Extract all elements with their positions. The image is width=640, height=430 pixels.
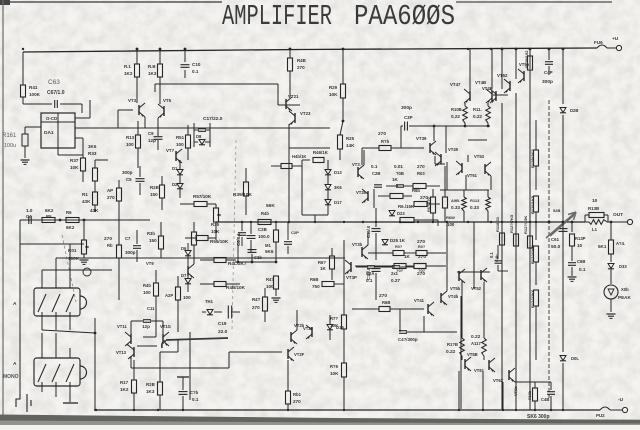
wire vt59 col (468, 139, 487, 141)
svg-text:R25: R25 (346, 136, 355, 141)
svg-text:R6: R6 (66, 210, 72, 215)
svg-text:PU2: PU2 (596, 413, 605, 418)
svg-text:VT2F: VT2F (294, 352, 305, 357)
svg-text:R6b: R6b (412, 188, 420, 193)
terminal +U (607, 47, 616, 49)
svg-text:C6B: C6B (577, 259, 585, 264)
capacitor 2x1 0.2 (392, 265, 400, 267)
svg-text:VT41: VT41 (414, 298, 425, 303)
capacitor C2A 0.1 (367, 265, 375, 267)
diode D25 (382, 240, 388, 245)
wires cascade to rail (461, 356, 463, 360)
wire -U bottom rail (94, 409, 600, 411)
fuse PU2 (600, 407, 610, 410)
svg-text:1K: 1K (392, 177, 399, 182)
border top-right segment (456, 1, 612, 3)
bus line x530 (529, 100, 531, 410)
svg-text:AMPLIFIER: AMPLIFIER (222, 0, 332, 33)
zigzag resistors 0.22 bottom (460, 338, 465, 356)
svg-text:C6/0.1: C6/0.1 (236, 233, 241, 246)
svg-text:R?9: R?9 (330, 364, 339, 369)
resistor R2B 1K3 (158, 382, 163, 395)
svg-text:C9: C9 (148, 131, 154, 136)
wire jack1 pins bus (42, 330, 95, 333)
svg-text:0.33: 0.33 (451, 205, 460, 210)
svg-text:1K3: 1K3 (148, 71, 157, 76)
svg-text:VT9: VT9 (146, 261, 154, 266)
transistor VT56 (523, 71, 525, 81)
svg-text:C2P: C2P (291, 230, 299, 235)
svg-text:R1: R1 (82, 192, 88, 197)
svg-text:0.1: 0.1 (579, 267, 586, 272)
resistor R77 10K (342, 315, 347, 329)
svg-text:R6./15K: R6./15K (398, 204, 415, 209)
svg-text:A: A (13, 301, 17, 307)
svg-text:C3P: C3P (404, 115, 413, 120)
wire vt3 collector to stair (154, 84, 156, 92)
svg-text:VT11: VT11 (117, 324, 127, 329)
wire out junction (548, 221, 551, 224)
svg-text:100.0: 100.0 (258, 234, 270, 239)
svg-text:C7: C7 (125, 236, 131, 241)
svg-text:C10: C10 (192, 62, 201, 67)
pot R01 100K (83, 220, 85, 240)
wire vt36 column (373, 189, 375, 208)
capacitor C9 12p (154, 136, 163, 138)
capacitor C2P mark (284, 241, 292, 243)
diode D7 (185, 279, 191, 284)
dashed bus line x549 (548, 100, 550, 398)
resistor R51 100 (186, 135, 191, 148)
svg-text:VT23: VT23 (300, 111, 311, 116)
svg-text:C61: C61 (551, 237, 560, 242)
svg-text:R4B/10K: R4B/10K (226, 285, 246, 290)
svg-text:10: 10 (577, 243, 583, 248)
svg-text:VT47: VT47 (450, 82, 461, 87)
svg-text:R12?/15K: R12?/15K (523, 216, 528, 234)
svg-text:R6W: R6W (446, 215, 455, 220)
svg-text:R4?: R4? (252, 297, 261, 302)
transistor VT45 (440, 293, 442, 303)
svg-text:300p: 300p (542, 79, 553, 85)
svg-text:2x1: 2x1 (391, 271, 399, 276)
svg-text:100: 100 (183, 295, 191, 300)
svg-text:R55/10K: R55/10K (210, 239, 229, 244)
bus line x516 (515, 93, 517, 410)
svg-text:A117: A117 (471, 341, 481, 346)
svg-text:270: 270 (379, 293, 387, 299)
svg-text:A?4.: A?4. (616, 241, 625, 246)
svg-text:5K1: 5K1 (598, 244, 607, 249)
svg-text:270: 270 (293, 399, 301, 404)
transistor VT2F (287, 349, 289, 359)
svg-text:22.0: 22.0 (218, 329, 228, 335)
svg-text:A2P: A2P (165, 293, 173, 298)
svg-text:R12?/1K8: R12?/1K8 (530, 245, 535, 264)
transistor VT6x mid (484, 164, 486, 174)
svg-text:R6B: R6B (310, 277, 318, 282)
svg-text:R13B: R13B (588, 206, 599, 211)
svg-text:100: 100 (126, 142, 134, 147)
svg-text:R37: R37 (70, 158, 79, 163)
svg-text:R161: R161 (2, 133, 17, 139)
wire dark bar y338 (162, 338, 228, 348)
svg-text:VT7: VT7 (166, 148, 175, 153)
svg-text:10K: 10K (70, 165, 79, 170)
wire y190 join (440, 189, 489, 191)
svg-text:PAA6ØØS: PAA6ØØS (354, 0, 455, 33)
wire DA1 pins (75, 117, 90, 119)
svg-text:C4?/300p: C4?/300p (398, 337, 418, 342)
svg-text:VT5: VT5 (163, 98, 172, 103)
svg-text:VT5b: VT5b (450, 286, 461, 291)
transistor VT21 (285, 99, 287, 109)
terminal -U (610, 409, 622, 411)
inductor L1 (589, 220, 607, 225)
svg-text:DA1: DA1 (44, 130, 54, 136)
svg-text:VT2b: VT2b (294, 323, 305, 328)
svg-text:10: 10 (592, 198, 598, 204)
svg-text:TH1: TH1 (205, 299, 214, 304)
transistor VT61 bottom (464, 359, 466, 369)
svg-text:0.22: 0.22 (471, 334, 481, 340)
svg-text:0.27: 0.27 (391, 278, 400, 283)
svg-text:0.1: 0.1 (366, 278, 373, 283)
svg-text:?0B: ?0B (396, 171, 404, 176)
svg-text:R4B: R4B (297, 58, 306, 63)
wire emitter row to C4B (515, 381, 551, 383)
svg-text:R.B: R.B (148, 64, 156, 69)
svg-text:C4: C4 (26, 214, 32, 219)
capacitor C6B 0.1 (568, 262, 576, 264)
wire top-left feedback (22, 52, 24, 85)
wire vt40 down (467, 155, 469, 162)
svg-text:270: 270 (417, 271, 425, 277)
svg-text:100: 100 (176, 142, 184, 147)
wires jacks (19, 244, 21, 394)
capacitor C16 rotated lower (372, 268, 381, 270)
svg-text:300p: 300p (125, 250, 136, 255)
svg-text:43K: 43K (82, 199, 91, 204)
transistor VT52 (509, 81, 511, 91)
svg-text:50.0: 50.0 (551, 244, 561, 250)
svg-text:VT3b: VT3b (356, 190, 367, 195)
svg-text:VT52: VT52 (497, 73, 508, 78)
transistor VT7 (175, 151, 177, 161)
svg-text:0.22: 0.22 (473, 114, 482, 119)
transistor VT48 (495, 91, 497, 101)
zigzag 0.33 b (486, 197, 491, 211)
svg-text:VT4b: VT4b (448, 294, 459, 299)
transistor VT36 (361, 247, 363, 257)
svg-text:Rb1: Rb1 (293, 392, 302, 397)
svg-text:R0?: R0? (395, 245, 403, 249)
svg-text:R10B: R10B (451, 107, 462, 112)
svg-text:D7: D7 (181, 273, 187, 278)
transistor VT3 (138, 105, 140, 115)
svg-text:R13: R13 (126, 135, 135, 140)
resistor R25 14K (338, 135, 343, 149)
svg-text:R4b: R4b (143, 283, 151, 288)
svg-text:PEAK: PEAK (618, 295, 631, 300)
svg-text:X0b: X0b (621, 287, 629, 292)
wire vt45 up (473, 222, 475, 289)
svg-text:100: 100 (447, 222, 455, 227)
svg-text:R1?B: R1?B (447, 342, 458, 347)
resistor R48 270 top (288, 58, 293, 71)
border left edge (2, 0, 4, 420)
svg-text:R17: R17 (120, 380, 129, 385)
transistor VT36 (367, 191, 369, 201)
svg-text:C4P: C4P (544, 70, 553, 75)
wire +U top rail (23, 48, 597, 52)
svg-text:R13P: R13P (575, 236, 586, 241)
svg-text:D8: D8 (196, 134, 202, 139)
capacitor C16 0.1 bottom (177, 376, 189, 378)
svg-text:0.01: 0.01 (394, 164, 403, 169)
svg-text:C17/22.0: C17/22.0 (203, 116, 223, 122)
wire ladder top (301, 148, 303, 160)
svg-text:R51: R51 (176, 135, 185, 140)
svg-text:R113: R113 (470, 198, 480, 203)
svg-text:L1: L1 (592, 227, 598, 232)
svg-text:VT3P: VT3P (346, 275, 357, 280)
wire vt stage (118, 109, 133, 111)
svg-text:C2A: C2A (366, 271, 374, 276)
transistor VT11 (130, 334, 132, 344)
junction dots bottom rail (95, 409, 97, 411)
svg-text:C4B: C4B (541, 397, 549, 402)
fold mark diagonal (62, 235, 76, 302)
diode D2B (562, 49, 564, 104)
svg-text:VT3.: VT3. (352, 162, 361, 167)
svg-text:OUT: OUT (613, 212, 623, 218)
capacitor C4? 300p (399, 330, 407, 332)
resistor R13b bottom rotated (533, 388, 538, 401)
terminal OUT (607, 221, 627, 223)
resistor R6 6K2 (66, 218, 79, 223)
svg-text:R12?/2K6: R12?/2K6 (530, 289, 535, 308)
svg-text:0.1: 0.1 (371, 164, 378, 169)
svg-text:R7?: R7? (330, 316, 338, 321)
resistor R41 100K (21, 85, 26, 97)
svg-text:D33: D33 (619, 264, 627, 269)
wire mid output rail (216, 221, 585, 223)
svg-text:150: 150 (150, 192, 158, 197)
svg-text:1K: 1K (320, 266, 327, 271)
svg-text:D6: D6 (181, 246, 187, 251)
svg-text:O-CD: O-CD (46, 116, 57, 121)
resistor R12x/2K6 (534, 290, 539, 306)
zigzag 0.33 a (462, 197, 467, 211)
diodes D1 D2 (177, 170, 183, 175)
capacitor C4P 300p (548, 49, 550, 60)
svg-text:6K2: 6K2 (45, 208, 54, 213)
svg-text:1.0: 1.0 (26, 208, 33, 213)
svg-text:100: 100 (266, 284, 274, 289)
svg-text:R01: R01 (68, 248, 77, 253)
svg-text:R4?: R4? (266, 277, 274, 282)
svg-text:52B: 52B (553, 208, 560, 213)
svg-text:R6?/270: R6?/270 (427, 197, 431, 212)
svg-text:270: 270 (417, 164, 425, 169)
svg-text:R3b: R3b (147, 231, 155, 236)
resistor R47 270 (263, 297, 268, 311)
svg-text:3K6: 3K6 (334, 185, 342, 190)
svg-text:270: 270 (104, 236, 112, 242)
pot R35 10K (214, 208, 219, 222)
svg-text:C2B: C2B (258, 227, 267, 232)
svg-text:R.1: R.1 (124, 64, 131, 69)
svg-text:R33: R33 (88, 151, 97, 156)
capacitor C10 0.1 (184, 49, 186, 62)
svg-text:12p: 12p (142, 324, 150, 329)
diode D6 (185, 251, 191, 256)
ground input left (26, 394, 28, 412)
wire v447 (446, 162, 448, 190)
wire center v289 (288, 140, 290, 222)
svg-text:R46/1K: R46/1K (313, 150, 329, 155)
resistor R13 100 (136, 135, 141, 148)
transistor VT39 (429, 143, 431, 153)
resistor R55/10K (196, 236, 208, 241)
svg-text:D2: D2 (172, 182, 178, 187)
wire jack pins bottom (55, 386, 57, 397)
resistor R4 100 (274, 276, 279, 289)
svg-text:0.1: 0.1 (192, 69, 199, 74)
svg-text:750: 750 (312, 284, 320, 289)
transistor VT3P (350, 262, 352, 272)
wires to diff pair (155, 296, 157, 337)
svg-text:1K3: 1K3 (146, 389, 155, 394)
svg-text:R12?/7K5: R12?/7K5 (509, 214, 514, 233)
diode D0L (562, 222, 564, 352)
wire vt26 column (296, 310, 298, 330)
svg-text:10K: 10K (330, 371, 339, 376)
capacitor C4B bottom2 (547, 391, 555, 393)
svg-text:D17: D17 (334, 200, 342, 205)
junction dots mid rail (241, 221, 243, 223)
svg-text:R5: R5 (46, 214, 52, 219)
resistor R1 43K (93, 192, 98, 205)
svg-text:12p: 12p (148, 138, 156, 143)
border top-left segment (0, 1, 222, 3)
svg-text:R126/1K8: R126/1K8 (530, 195, 535, 214)
svg-text:0.33: 0.33 (470, 205, 479, 210)
border bottom bar (0, 418, 640, 425)
svg-text:10K: 10K (329, 92, 338, 97)
svg-text:300p: 300p (122, 170, 133, 175)
transistor VT6b bottom (508, 370, 510, 380)
capacitor C19 22.0 (227, 306, 229, 319)
wire cascade tops (457, 271, 490, 273)
svg-text:R6B: R6B (382, 300, 390, 305)
svg-text:270: 270 (107, 195, 115, 200)
svg-text:VT13: VT13 (116, 350, 127, 355)
capacitor 12p pair (143, 319, 151, 321)
wire VT13 to VT2F staircase (130, 356, 132, 368)
svg-text:VT53: VT53 (474, 154, 485, 159)
transistor VT9 (187, 266, 189, 276)
svg-text:FU6: FU6 (594, 40, 603, 45)
transistor VT52 low (480, 270, 482, 280)
svg-text:1K2: 1K2 (120, 387, 129, 392)
svg-text:D13: D13 (334, 170, 342, 175)
transistor VT26 (290, 332, 292, 342)
svg-text:MONO: MONO (3, 374, 19, 380)
resistor R12x/1K8 lower (534, 246, 539, 262)
svg-text:C63: C63 (48, 79, 60, 86)
resistor R6?/270 rot a (432, 189, 434, 197)
svg-text:0.1: 0.1 (192, 397, 199, 402)
svg-text:R2B: R2B (150, 185, 159, 190)
svg-text:5K6: 5K6 (265, 249, 274, 254)
svg-text:C5: C5 (126, 177, 132, 182)
resistor R128/0.82 (528, 56, 533, 70)
svg-text:R29: R29 (329, 85, 338, 90)
transistor VT4B (491, 91, 493, 101)
capacitor C2B2 (248, 249, 257, 251)
wire center column (288, 124, 290, 140)
resistor R29 10K (342, 49, 344, 84)
diode D23 (389, 211, 395, 216)
connector jack A1 (34, 288, 80, 316)
svg-text:270: 270 (297, 65, 305, 70)
ground jack2 (63, 402, 78, 404)
LED PEAK (604, 285, 618, 299)
wire emitter join y126 (446, 125, 490, 127)
wire VT41 emitter down (423, 316, 425, 332)
transistor VT13 (133, 347, 135, 357)
svg-text:Rb: Rb (107, 243, 113, 248)
svg-text:R03: R03 (417, 171, 425, 176)
svg-text:VT4B: VT4B (475, 80, 486, 85)
svg-text:1K: 1K (404, 254, 411, 259)
svg-text:R128/0.82: R128/0.82 (525, 50, 529, 68)
wire long feedback from DA1 (330, 127, 345, 129)
svg-text:43K: 43K (90, 208, 99, 213)
resistor R17 1K2 (132, 380, 137, 393)
pencil arrow mark (546, 212, 576, 238)
svg-text:300p: 300p (401, 105, 412, 111)
transistor VT5 (163, 106, 165, 116)
resistor R61 270 (286, 391, 291, 404)
bus line x502 (501, 103, 503, 410)
svg-text:VT52: VT52 (471, 286, 482, 291)
svg-text:56K: 56K (266, 203, 275, 209)
svg-text:6K2: 6K2 (66, 225, 75, 230)
svg-text:A9B.: A9B. (451, 198, 460, 203)
wire y305 link (251, 277, 276, 279)
transistor VT49 (440, 154, 442, 164)
fold mark vertical (232, 140, 236, 330)
svg-text:VT1G: VT1G (160, 324, 171, 329)
transistor VT29 (311, 327, 313, 337)
transistor VT47 (469, 91, 471, 101)
transistor VT1G (162, 334, 164, 344)
resistor R6b 270 y266 (414, 264, 426, 269)
svg-text:R6?: R6? (318, 260, 326, 265)
resistor A9B 0.33 box (443, 197, 448, 208)
svg-text:C11: C11 (147, 306, 155, 311)
svg-text:R11.: R11. (473, 107, 482, 112)
capacitor C4 1.0 (28, 216, 30, 224)
svg-text:R57/10K: R57/10K (193, 194, 212, 199)
svg-text:SK6 300p: SK6 300p (527, 414, 550, 420)
resistor R?41 5K1 (610, 222, 612, 240)
transistor VT30 (357, 167, 359, 177)
transistor VT41 (427, 304, 429, 314)
